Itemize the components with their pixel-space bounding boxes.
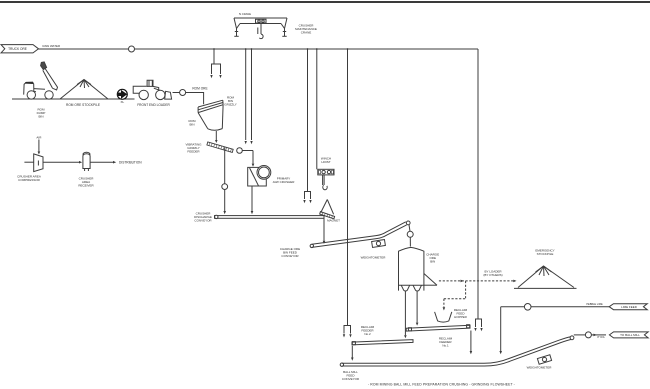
svg-text:DISTRIBUTION: DISTRIBUTION [119, 160, 142, 164]
svg-text:No.2: No.2 [364, 332, 371, 336]
svg-text:CONVEYOR: CONVEYOR [194, 219, 212, 223]
svg-text:ROM ORE STOCKPILE: ROM ORE STOCKPILE [66, 103, 100, 107]
svg-text:TRUCK ORE: TRUCK ORE [8, 47, 27, 51]
svg-text:FRONT END LOADER: FRONT END LOADER [137, 103, 170, 107]
svg-text:BIN: BIN [38, 115, 43, 119]
svg-text:BIN: BIN [189, 123, 194, 127]
svg-text:WEIGHTOMETER: WEIGHTOMETER [527, 366, 553, 370]
svg-text:CONVEYOR: CONVEYOR [342, 377, 360, 381]
svg-text:PEBBLE LIME: PEBBLE LIME [586, 303, 603, 306]
svg-text:JAW CRUSHER: JAW CRUSHER [273, 180, 296, 184]
svg-text:RECEIVER: RECEIVER [78, 184, 94, 188]
svg-text:XL: XL [120, 100, 124, 104]
svg-text:(BY OTHERS): (BY OTHERS) [483, 273, 502, 277]
svg-text:TO BALL MILL: TO BALL MILL [620, 333, 640, 337]
svg-text:HOIST: HOIST [321, 160, 330, 164]
svg-text:MAGNET: MAGNET [327, 219, 340, 223]
svg-text:GRIZZLY: GRIZZLY [224, 103, 236, 107]
svg-text:AIR: AIR [36, 136, 42, 140]
svg-text:8" DIA: 8" DIA [597, 336, 604, 339]
svg-text:STOCKPILE: STOCKPILE [537, 252, 554, 256]
svg-text:ROM ORE: ROM ORE [192, 87, 207, 91]
svg-text:RAW WATER: RAW WATER [43, 44, 61, 48]
svg-text:FEEDER: FEEDER [187, 150, 200, 154]
svg-text:CRANE: CRANE [301, 31, 312, 35]
svg-text:COMPRESSOR: COMPRESSOR [18, 178, 41, 182]
svg-text:No.1: No.1 [442, 344, 449, 348]
svg-text:- ROM MINING BALL MILL FEED PR: - ROM MINING BALL MILL FEED PREPARATION … [368, 383, 515, 387]
svg-text:BIN: BIN [430, 260, 435, 264]
svg-text:LIME FEED: LIME FEED [621, 305, 638, 309]
svg-text:CONVEYOR: CONVEYOR [281, 254, 299, 258]
svg-text:HOPPER: HOPPER [454, 315, 468, 319]
svg-text:WEIGHTOMETER: WEIGHTOMETER [361, 256, 387, 260]
svg-text:5t CRANE: 5t CRANE [239, 12, 251, 16]
